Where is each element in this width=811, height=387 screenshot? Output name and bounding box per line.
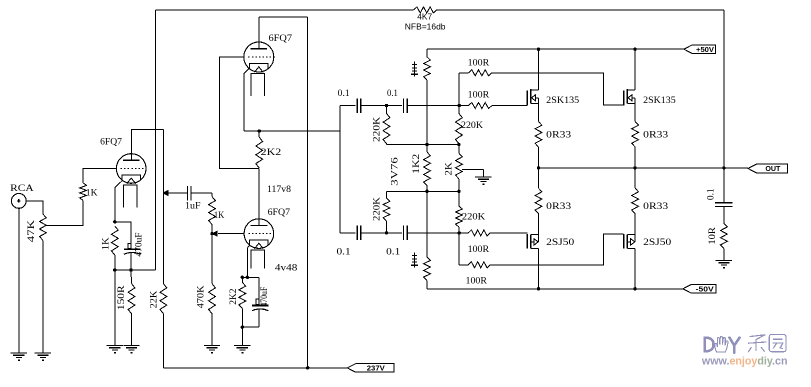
resistor 220K (lower right bias) [456, 206, 486, 227]
capacitor 0.1 (top first) [338, 89, 361, 113]
trimmer mark (lower bias) [411, 253, 418, 268]
resistor 220K (upper right bias) [456, 113, 484, 143]
ground (V2 cathode) [234, 346, 250, 354]
node bottom mid junction [385, 231, 388, 234]
capacitor 0.1 (bottom second) [386, 226, 407, 258]
capacitor 1uF (interstage coupling) [163, 186, 212, 212]
wire 1K to V1 grid [83, 169, 116, 183]
svg-text:1K: 1K [102, 237, 112, 250]
svg-text:4K7: 4K7 [417, 11, 432, 21]
label 117v8 plate voltage [267, 185, 291, 195]
resistor 0R33 (Q3 source) [535, 188, 571, 213]
wire cap to mid junction (bottom) [361, 232, 402, 234]
wire bias row L [387, 190, 459, 192]
label 4v48 cathode voltage [275, 263, 298, 273]
svg-text:1K2: 1K2 [412, 153, 422, 173]
node row L junctions [425, 190, 460, 193]
svg-text:2K2: 2K2 [229, 288, 239, 305]
wire row leads to 100R (bottom) [459, 232, 527, 234]
arrow into 1uF coupling [162, 190, 168, 196]
resistor 0R33 (Q2 source) [632, 122, 669, 147]
resistor 220K (upper left bias) [373, 113, 390, 143]
wire 47K tap to 1K grid resistor [45, 200, 84, 225]
resistor 100R (gate Q1) [468, 90, 492, 108]
wire V3 plate up [258, 17, 260, 49]
resistor 4K7 (feedback) [405, 7, 446, 32]
wire -50V rail [427, 288, 683, 290]
node B+ bottom junction [306, 366, 309, 369]
triode V3 6FQ7 (SRPP upper) [244, 34, 292, 96]
svg-text:22K: 22K [150, 291, 160, 309]
terminal 237V supply tag [347, 364, 394, 373]
wire V2 cathode down [247, 240, 249, 277]
wire B+ vertical line [307, 17, 309, 368]
resistor 22K (V1 plate load) [150, 284, 167, 314]
svg-text:+50V: +50V [696, 45, 714, 54]
resistor 100R (gate Q3) [468, 230, 491, 255]
resistor 1K (grid stopper V2) [209, 197, 225, 225]
svg-text:220K: 220K [373, 117, 383, 142]
node NFB row junctions [113, 268, 133, 271]
node row U junctions [425, 143, 460, 146]
wire NFB top rail left [155, 9, 413, 11]
wire 2K2 bottom lead [241, 308, 243, 327]
wire 2K2 top lead [258, 131, 260, 137]
node top mid junction [385, 104, 388, 107]
resistor 2K (bias, center tapped) [445, 153, 463, 179]
svg-text:6FQ7: 6FQ7 [100, 137, 122, 147]
wire 470K to ground [211, 314, 213, 346]
wire 1K-line to ground [114, 270, 116, 346]
svg-text:470K: 470K [197, 285, 207, 308]
transistor Q4 2SJ50 (P-MOSFET) [624, 234, 672, 249]
watermark DIY logo and url [701, 335, 788, 368]
ground (RCA shield) [11, 353, 27, 361]
RCA input jack J1 [10, 184, 34, 208]
wire cap2 to 100R junction [407, 105, 459, 107]
svg-text:RCA: RCA [10, 184, 34, 194]
node output bus junctions [537, 166, 726, 169]
svg-text:0.1: 0.1 [707, 188, 717, 200]
node V2 cathode junctions [241, 276, 249, 279]
node 2K2 bottom junction [241, 326, 244, 329]
wire V2 cathode row [242, 276, 259, 278]
wire NFB right edge down to output [723, 10, 725, 168]
svg-text:470uF: 470uF [135, 232, 145, 256]
svg-text:3V76: 3V76 [391, 157, 401, 186]
wire 22K to B+ bottom rail [162, 314, 164, 368]
terminal -50V supply tag [683, 284, 716, 293]
wire 1K to grid node [211, 225, 213, 234]
wire 2K2/470uF bottom row [242, 326, 259, 328]
wire V2 plate up to SRPP node [258, 169, 260, 226]
wire 2K2 top lead [241, 277, 243, 282]
transistor Q2 2SK135 (N-MOSFET) [624, 89, 676, 106]
wire 100R lead left (bottom) [459, 264, 468, 266]
svg-text:NFB=16db: NFB=16db [405, 22, 446, 32]
resistor 1K (grid stopper V1) [80, 183, 98, 201]
wire 47K to ground [42, 240, 44, 353]
wire grid node to 470K [211, 234, 213, 284]
svg-text:-50V: -50V [696, 284, 714, 293]
svg-text:www.enjoydiy.cn: www.enjoydiy.cn [701, 355, 788, 367]
wire 100R to Q4 gate [490, 234, 624, 265]
wire 2K leads [458, 145, 460, 192]
svg-text:1uF: 1uF [185, 202, 201, 212]
wire NFB top rail right [437, 9, 724, 11]
resistor 0R33 (Q1 source) [535, 122, 571, 147]
wire 0R33 to output rail (col2) [634, 147, 636, 168]
resistor 47K (input load) [27, 214, 46, 242]
svg-text:1K: 1K [214, 211, 225, 221]
svg-text:0.1: 0.1 [387, 89, 398, 99]
wire bias line lower [426, 191, 428, 288]
wire SRPP output row [244, 130, 340, 132]
svg-text:2SK135: 2SK135 [546, 96, 579, 106]
wire down to second 100R (bottom) [458, 233, 460, 265]
svg-text:0.1: 0.1 [338, 89, 350, 99]
transistor Q1 2SK135 (N-MOSFET) [527, 89, 579, 106]
wire NFB vertical (4K7 line down to cathode row) [154, 10, 156, 270]
resistor 2K2 (V2 cathode) [229, 282, 246, 308]
wire Q1 source to 0R33 [538, 103, 540, 121]
resistor 470K (V2 grid leak) [197, 284, 216, 314]
wire cap to mid junction [361, 105, 402, 107]
wire +50V rail [427, 48, 684, 50]
resistor 100R (gate Q2) [468, 59, 492, 76]
resistor 220K (lower left bias) [373, 197, 390, 221]
wire 150R to ground [131, 314, 133, 346]
svg-text:117v8: 117v8 [267, 185, 291, 195]
terminal OUT tag [748, 164, 788, 173]
svg-text:4v48: 4v48 [275, 263, 298, 273]
svg-text:237V: 237V [367, 364, 385, 373]
ground (V1 cathode) [107, 346, 123, 354]
wire Zobel cap to 10R [723, 207, 725, 224]
wire V3 cathode down to output node [244, 63, 250, 131]
trimmer mark (upper bias) [411, 62, 418, 77]
capacitor 470uF (V1 cathode bypass) [124, 232, 145, 256]
node SRPP output junction [258, 129, 261, 132]
svg-text:0R33: 0R33 [643, 202, 668, 212]
svg-text:0R33: 0R33 [643, 130, 668, 140]
wire NFB row (cathode feedback node) [115, 269, 156, 271]
wire 220K leads (lower right) [458, 191, 460, 233]
wire bias line upper [426, 49, 428, 152]
wire top row to cap [340, 105, 356, 107]
arrow into V2 grid [211, 231, 217, 237]
wire 220K leads [386, 106, 388, 145]
svg-text:2SK135: 2SK135 [643, 96, 676, 106]
node V2 grid junction [210, 232, 213, 235]
svg-text:100R: 100R [468, 90, 490, 100]
svg-text:2K2: 2K2 [261, 148, 282, 158]
capacitor 0.1 (Zobel) [707, 168, 733, 207]
svg-text:220K: 220K [461, 121, 483, 131]
wire output rail to 0R33 [538, 168, 540, 188]
wire V1 plate up and over to node B [132, 129, 164, 160]
svg-text:OUT: OUT [765, 164, 781, 173]
wire inner box top (plate to B+ line) [259, 16, 308, 18]
svg-text:100R: 100R [466, 277, 488, 287]
wire 1K2 leads [426, 145, 428, 192]
resistor 100R (gate Q4) [466, 262, 491, 287]
wire output rail to 0R33 (col2) [634, 168, 636, 188]
wire output bus [539, 167, 748, 169]
capacitor 0.1 (bottom first) [337, 226, 361, 258]
wire Q2 drain to +50V [634, 49, 636, 90]
ground (470K) [204, 346, 220, 354]
node -50V junctions [537, 287, 637, 290]
wire 0R33 to Q4 source [634, 214, 636, 235]
wire V3 grid left and down to SRPP node [220, 57, 260, 168]
wire 2K2 to ground [241, 327, 243, 345]
resistor lower bias adjust [424, 257, 431, 281]
svg-text:6FQ7: 6FQ7 [268, 208, 291, 218]
wire cap2 to 100R junction (bottom) [407, 232, 459, 234]
terminal +50V supply tag [684, 45, 716, 54]
svg-text:0R33: 0R33 [546, 130, 571, 140]
resistor 1K (V1 cathode) [102, 226, 119, 255]
label 3V76 bias voltage [391, 157, 401, 186]
wire 100R to Q2 gate [492, 73, 624, 105]
svg-text:0.1: 0.1 [386, 248, 400, 258]
svg-text:470uF: 470uF [260, 287, 270, 307]
capacitor 470uF (V2 cathode bypass) [252, 277, 270, 327]
wire V1 cathode down [115, 175, 122, 222]
svg-text:47K: 47K [27, 220, 37, 243]
resistor 0R33 (Q4 source) [632, 188, 669, 213]
ground (150R) [123, 346, 139, 354]
svg-text:0R33: 0R33 [546, 202, 571, 212]
wire RCA tip to 47K [26, 201, 43, 214]
wire 220K leads (lower left) [386, 191, 388, 233]
node top gate-network junction [458, 104, 461, 107]
resistor 1K2 (bias center) [412, 152, 430, 186]
wire 1uF to 1K2 grid stopper [211, 193, 213, 197]
node V1 cathode junction [113, 220, 116, 223]
wire Q3 drain to -50V [538, 248, 540, 288]
svg-text:0.1: 0.1 [337, 248, 351, 258]
wire node B plate line down [162, 129, 164, 283]
ground (Zobel) [716, 260, 732, 268]
wire 2K tap to ground [462, 170, 483, 177]
wire bottom row from vertical [340, 232, 356, 234]
wire 220K lead [458, 106, 460, 114]
wire B+ bottom rail [163, 367, 347, 369]
svg-text:6FQ7: 6FQ7 [269, 34, 293, 44]
wire row leads to 100R [459, 105, 527, 107]
svg-text:220K: 220K [373, 197, 383, 221]
wire 100R lead left [459, 72, 468, 74]
svg-text:1K: 1K [86, 188, 98, 198]
triode V1 6FQ7 (input) [100, 137, 146, 207]
resistor 150R (NFB shunt) [117, 284, 135, 314]
wire cathode junction to 470uF [115, 222, 131, 249]
wire 10R to ground [723, 249, 725, 261]
wire 150R top lead [130, 270, 133, 284]
capacitor 0.1 (top second) [387, 89, 407, 113]
svg-text:220K: 220K [462, 212, 485, 222]
wire RCA shield down [18, 208, 20, 353]
resistor 10R (Zobel) [708, 223, 727, 248]
wire 0R33 to Q3 source [538, 214, 540, 235]
svg-text:10R: 10R [708, 226, 718, 244]
svg-text:100R: 100R [468, 59, 490, 69]
wire grid node to V2 grid [218, 233, 244, 235]
wire Q1 drain to +50V [538, 49, 540, 90]
node +50V junctions [537, 48, 637, 51]
wire up to second 100R [458, 73, 460, 106]
transistor Q3 2SJ50 (P-MOSFET) [527, 234, 574, 249]
svg-text:2K: 2K [445, 162, 455, 176]
wire 1K cathode to NFB row [114, 255, 116, 270]
node bottom gate-network junction [458, 231, 461, 234]
wire Q4 drain to -50V [634, 248, 636, 288]
ground (2K tap) [475, 177, 491, 185]
svg-text:100R: 100R [468, 245, 490, 255]
wire Q2 source to 0R33 [634, 103, 636, 121]
resistor 2K2 (SRPP cathode) [256, 137, 282, 168]
resistor upper bias adjust [424, 57, 431, 80]
triode V2 6FQ7 (SRPP lower) [244, 208, 290, 268]
wire SRPP signal vertical [339, 106, 341, 233]
svg-text:2SJ50: 2SJ50 [546, 238, 574, 248]
ground (47K) [35, 353, 51, 361]
wire bias row U [387, 144, 459, 146]
wire 470uF to NFB row [130, 253, 132, 271]
svg-text:2SJ50: 2SJ50 [643, 238, 671, 248]
wire 0R33 to output rail [538, 147, 540, 168]
svg-text:150R: 150R [117, 285, 127, 310]
